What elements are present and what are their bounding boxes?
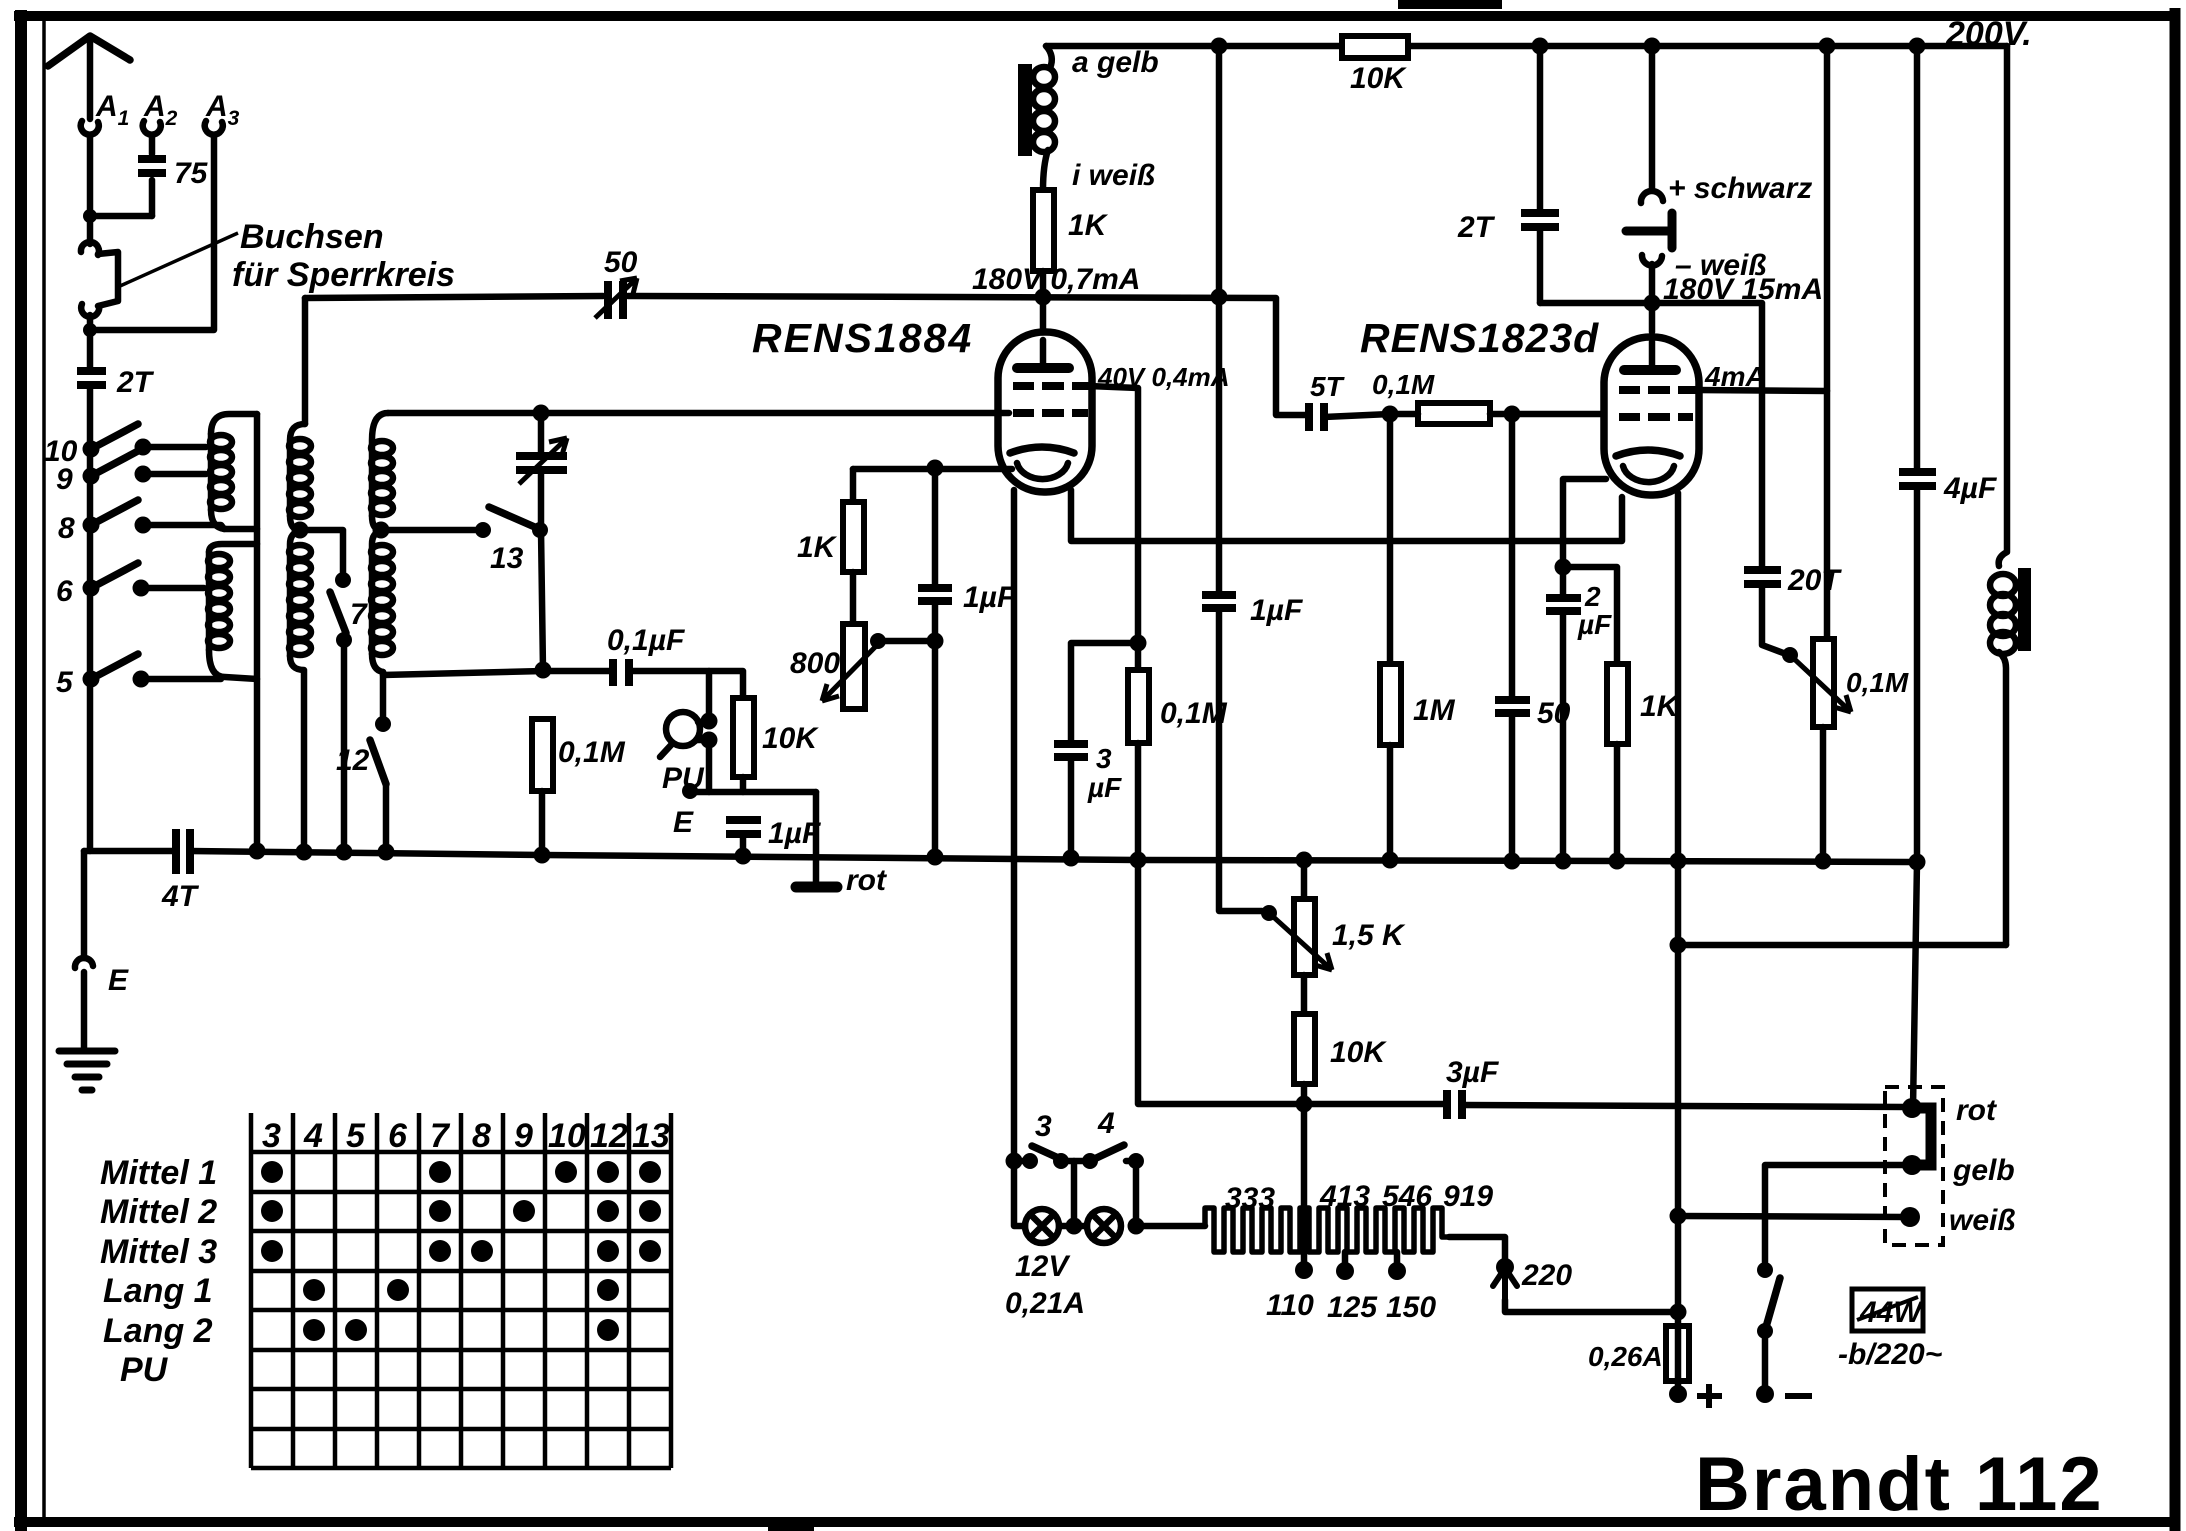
label 3uF screen xyxy=(1087,743,1122,803)
node 0.1uF line xyxy=(535,662,552,679)
node between lamps xyxy=(1066,1218,1083,1235)
capacitor 3uF screen xyxy=(1054,643,1138,857)
svg-text:9: 9 xyxy=(56,463,73,496)
variable capacitor tuning xyxy=(516,413,567,530)
svg-text:a gelb: a gelb xyxy=(1072,46,1159,79)
rheostat 800 xyxy=(822,624,884,709)
resistor 1K cathode tube2 xyxy=(1563,567,1628,859)
wire switch bus xyxy=(87,449,94,851)
svg-text:Buchsen: Buchsen xyxy=(240,218,384,256)
svg-text:4: 4 xyxy=(303,1117,323,1155)
wire screen feed tube2 xyxy=(1696,46,1827,391)
node 20T wiper xyxy=(1782,647,1798,663)
node rail pot xyxy=(1815,853,1832,870)
terminal minus xyxy=(1756,1385,1774,1403)
lamp 12V right xyxy=(1059,1209,1121,1243)
capacitor 1uF decoupling xyxy=(1202,595,1262,911)
link rot-gelb xyxy=(1912,1108,1931,1165)
resistor 0.1M coupling xyxy=(1390,403,1512,424)
wire tap 5 xyxy=(141,676,221,683)
svg-text:1K: 1K xyxy=(1640,690,1681,723)
switch 6 xyxy=(83,563,150,597)
capacitor 4uF xyxy=(1899,38,1936,862)
label plus xyxy=(1697,1384,1722,1408)
capacitor 50 avc xyxy=(1495,414,1530,859)
wire tap to switch 7 xyxy=(300,530,343,573)
svg-text:+ schwarz: + schwarz xyxy=(1668,172,1812,205)
svg-text:Lang 1: Lang 1 xyxy=(103,1272,213,1310)
svg-text:10K: 10K xyxy=(1350,62,1407,95)
wire 180V line right xyxy=(628,296,1305,415)
wire weiss line xyxy=(1678,1216,1910,1217)
svg-text:µF: µF xyxy=(1577,609,1612,640)
svg-text:919: 919 xyxy=(1443,1180,1493,1213)
box 44W xyxy=(1852,1289,1924,1331)
terminal rot xyxy=(1902,1098,1922,1118)
tube RENS1823d xyxy=(1604,303,1699,495)
node heater left xyxy=(1006,1153,1023,1170)
node rail 4uF xyxy=(1909,854,1926,871)
switch 5 xyxy=(83,654,150,688)
node rail 1K tube2 xyxy=(1609,853,1626,870)
node weiss junction xyxy=(1670,1208,1687,1225)
arrow 220 xyxy=(1493,1268,1517,1300)
node bias 200V xyxy=(1211,38,1228,55)
table dots Mittel 3 xyxy=(261,1240,661,1262)
node rail 1M xyxy=(1382,852,1399,869)
svg-text:4T: 4T xyxy=(161,880,200,913)
svg-text:40V 0,4mA: 40V 0,4mA xyxy=(1097,362,1230,392)
wire E line xyxy=(690,789,816,796)
node rail L1 xyxy=(249,843,266,860)
node rail sw7 xyxy=(336,844,353,861)
svg-text:1µF: 1µF xyxy=(1250,594,1303,627)
electrolytic capacitor schwarz/weiss xyxy=(1626,38,1672,304)
svg-text:8: 8 xyxy=(58,512,75,545)
switch 13 xyxy=(475,507,548,538)
svg-text:10K: 10K xyxy=(762,722,819,755)
terminal gelb xyxy=(1902,1155,1922,1175)
node anode 180V xyxy=(1035,289,1052,306)
potentiometer 0.1M tone xyxy=(1790,391,1851,861)
svg-text:1K: 1K xyxy=(1068,209,1109,242)
svg-text:1M: 1M xyxy=(1413,694,1456,727)
svg-text:1µF: 1µF xyxy=(963,581,1016,614)
wire cathode tube2 xyxy=(1563,479,1606,567)
wire anode line tube2 xyxy=(1540,303,1762,567)
terminal E pickup xyxy=(682,783,698,799)
wire 220 to B minus xyxy=(1505,1300,1678,1312)
svg-text:7: 7 xyxy=(350,598,368,631)
node 1uF mid xyxy=(927,633,944,650)
svg-text:Lang 2: Lang 2 xyxy=(103,1312,213,1350)
node cathode 1uF xyxy=(927,460,944,477)
wire A3 down and across xyxy=(90,137,214,330)
wire bias feed x1219 xyxy=(1216,46,1223,595)
svg-text:10K: 10K xyxy=(1330,1036,1387,1069)
connector box dashed xyxy=(1885,1087,1943,1245)
svg-text:RENS1884: RENS1884 xyxy=(752,315,973,361)
resistor 0.1M screen xyxy=(1128,670,1149,860)
terminal A1 xyxy=(81,121,99,135)
resistor 10K pickup xyxy=(733,698,754,792)
svg-text:4µF: 4µF xyxy=(1943,472,1997,505)
svg-text:0,1M: 0,1M xyxy=(1372,369,1435,400)
potentiometer 1.5K xyxy=(1269,860,1332,975)
wire tap 10 xyxy=(143,444,206,451)
svg-text:5T: 5T xyxy=(1310,371,1346,402)
svg-text:20T: 20T xyxy=(1787,564,1842,597)
svg-text:333: 333 xyxy=(1225,1182,1275,1215)
wire to rot ground xyxy=(813,792,820,884)
node rail 3uF xyxy=(1063,850,1080,867)
capacitor 20T xyxy=(1744,570,1786,654)
wire tap 220 xyxy=(1449,1237,1505,1260)
capacitor 4T xyxy=(176,829,190,874)
svg-text:110: 110 xyxy=(1266,1289,1314,1322)
svg-text:13: 13 xyxy=(632,1117,670,1155)
node screen 200V xyxy=(1819,38,1836,55)
svg-text:PU: PU xyxy=(120,1351,169,1389)
wire tap 110 xyxy=(1301,1104,1308,1268)
wire lamp center up xyxy=(1071,1161,1078,1226)
node rail 0.1M screen xyxy=(1130,852,1147,869)
capacitor 1uF bias xyxy=(918,468,952,856)
wire B minus vertical xyxy=(1675,861,1682,1326)
wire heater switch row xyxy=(1014,1158,1136,1165)
svg-text:Mittel 1: Mittel 1 xyxy=(100,1154,217,1192)
terminal A3 xyxy=(205,121,223,135)
wire tap 150 xyxy=(1394,1252,1401,1268)
table dots Lang 2 xyxy=(303,1319,619,1341)
svg-text:44W: 44W xyxy=(1859,1296,1924,1329)
svg-text:E: E xyxy=(108,964,129,997)
switch 10 xyxy=(83,424,152,458)
wire bias line xyxy=(1138,860,1443,1104)
svg-text:E: E xyxy=(673,806,694,839)
tube RENS1884 xyxy=(998,332,1092,492)
wire grid tube2 xyxy=(1512,411,1604,418)
wire tap 125 xyxy=(1342,1252,1349,1268)
svg-text:3: 3 xyxy=(1096,743,1112,774)
wire A2 to A1 junction xyxy=(90,213,152,220)
resistor 1K anode xyxy=(1033,190,1054,332)
resistor heater dropper xyxy=(1205,1208,1449,1252)
node rail 50 xyxy=(1504,853,1521,870)
node rail 0.1M vol xyxy=(534,847,551,864)
capacitor 1uF cathode xyxy=(726,820,761,855)
resistor 1K cathode xyxy=(843,469,864,624)
capacitor 5T xyxy=(1309,403,1390,431)
svg-text:5: 5 xyxy=(346,1117,366,1155)
svg-text:8: 8 xyxy=(472,1117,491,1155)
terminal weiss xyxy=(1900,1207,1920,1227)
label Buchsen fuer Sperrkreis xyxy=(120,218,455,294)
wire 180V line left xyxy=(305,296,603,298)
svg-text:150: 150 xyxy=(1386,1291,1436,1324)
wire ground rail xyxy=(84,851,1917,862)
svg-text:3: 3 xyxy=(1035,1110,1052,1143)
switch 7 xyxy=(330,572,352,648)
capacitor 2T right xyxy=(1521,38,1559,304)
svg-text:7: 7 xyxy=(430,1117,451,1155)
node lamp right xyxy=(1128,1218,1145,1235)
node rail 1.5K xyxy=(1296,852,1313,869)
svg-text:200V.: 200V. xyxy=(1945,15,2032,53)
svg-text:13: 13 xyxy=(490,542,524,575)
svg-text:75: 75 xyxy=(174,157,209,190)
wire earth lead xyxy=(81,851,88,958)
coil L1 upper winding xyxy=(210,414,257,529)
label minus xyxy=(1785,1393,1812,1399)
svg-text:3µF: 3µF xyxy=(1446,1056,1499,1089)
wire L1 spine xyxy=(254,414,261,851)
coil L2 lower winding xyxy=(289,531,311,851)
svg-text:0,1M: 0,1M xyxy=(1846,667,1909,698)
node anode tube2 xyxy=(1644,295,1661,312)
capacitor 75 xyxy=(138,159,166,216)
svg-text:800: 800 xyxy=(790,647,840,680)
switch 4 xyxy=(1082,1145,1144,1169)
svg-text:i weiß: i weiß xyxy=(1072,159,1155,192)
svg-text:12: 12 xyxy=(590,1117,628,1155)
wire lamps to dropper xyxy=(1136,1223,1205,1230)
coil L2 upper winding xyxy=(289,424,311,530)
node rail 2uF xyxy=(1555,853,1572,870)
switch mains xyxy=(1757,1262,1780,1386)
fuse 0.26A xyxy=(1666,1326,1689,1390)
trimmer capacitor 50 xyxy=(595,278,637,319)
capacitor 2uF cathode xyxy=(1546,567,1581,857)
wire tap 8 xyxy=(143,525,224,529)
svg-text:gelb: gelb xyxy=(1952,1154,2015,1187)
svg-text:0,26A: 0,26A xyxy=(1588,1341,1663,1372)
node tap 150 xyxy=(1388,1262,1406,1280)
svg-text:12V: 12V xyxy=(1015,1250,1071,1283)
node bias 180V xyxy=(1211,289,1228,306)
svg-text:weiß: weiß xyxy=(1949,1204,2016,1237)
terminal plus xyxy=(1669,1385,1687,1403)
svg-text:6: 6 xyxy=(56,575,73,608)
wire PU lower to E line xyxy=(706,740,713,792)
svg-text:0,1M: 0,1M xyxy=(558,736,626,769)
wire lamp right down xyxy=(1133,1161,1140,1226)
node tap 220 xyxy=(1496,1258,1514,1276)
switch 12 xyxy=(370,716,391,851)
table dots Mittel 1 xyxy=(261,1161,661,1183)
wire switch7 to rail xyxy=(341,640,348,851)
pickup PU xyxy=(660,712,718,757)
wire tuning line down xyxy=(541,530,543,670)
wire coil3 bottom line xyxy=(383,671,543,675)
wire tap 6 xyxy=(141,585,204,592)
svg-text:3: 3 xyxy=(262,1117,281,1155)
svg-text:1K: 1K xyxy=(797,531,838,564)
node 800 wiper xyxy=(870,633,886,649)
node cathode tube2 xyxy=(1555,559,1572,576)
coil anode choke xyxy=(1018,46,1055,190)
table dots Lang 1 xyxy=(303,1279,619,1301)
wire heater tube1 left xyxy=(1011,490,1018,1161)
wire cathode line xyxy=(853,466,1012,473)
svg-text:125: 125 xyxy=(1327,1291,1378,1324)
wire wiper to 1uF xyxy=(878,638,935,645)
wire tap 9 xyxy=(143,471,206,478)
node 1M top xyxy=(1382,406,1399,423)
coil L1 lower winding xyxy=(208,544,257,679)
svg-text:Brandt 112: Brandt 112 xyxy=(1695,1442,2104,1527)
ground rot xyxy=(796,882,837,893)
wire rot feed xyxy=(1913,862,1917,1108)
svg-text:Mittel 3: Mittel 3 xyxy=(100,1233,217,1271)
resistor 10K rail xyxy=(1342,36,1408,58)
node screen 3uF xyxy=(1130,635,1147,652)
coil L3 upper winding xyxy=(371,413,393,530)
antenna xyxy=(48,36,130,119)
svg-text:µF: µF xyxy=(1087,772,1122,803)
node rail 1uF bias xyxy=(927,849,944,866)
speaker transformer xyxy=(1990,46,2031,945)
svg-text:5: 5 xyxy=(56,666,74,699)
wire to 2T xyxy=(87,330,94,369)
wire heater tube2 right xyxy=(1675,493,1682,859)
ground symbol xyxy=(59,972,115,1090)
node rail L2 xyxy=(296,844,313,861)
node L2 tap xyxy=(292,522,309,539)
terminal A2 xyxy=(143,121,161,135)
svg-text:-b/220~: -b/220~ xyxy=(1838,1338,1942,1371)
table dots Mittel 2 xyxy=(261,1200,661,1222)
wire 200V rail xyxy=(1046,43,2007,50)
capacitor 2T xyxy=(77,371,106,449)
svg-text:2T: 2T xyxy=(1457,211,1496,244)
svg-text:9: 9 xyxy=(514,1117,533,1155)
wire L3 bottom to switch 12 xyxy=(380,672,387,717)
sockets fuer Sperrkreis xyxy=(81,242,118,330)
svg-text:rot: rot xyxy=(1956,1094,1998,1127)
wire gelb to switch xyxy=(1765,1165,1912,1262)
node L3 tap xyxy=(373,522,390,539)
svg-text:0,1µF: 0,1µF xyxy=(607,624,685,657)
node rail sw12 xyxy=(378,844,395,861)
capacitor 3uF output xyxy=(1447,1090,1912,1119)
svg-text:413: 413 xyxy=(1319,1180,1370,1213)
svg-text:für Sperrkreis: für Sperrkreis xyxy=(232,256,455,294)
node rail 1uF xyxy=(735,848,752,865)
resistor 10K bias xyxy=(1294,975,1315,1104)
svg-text:2: 2 xyxy=(1584,581,1601,612)
svg-text:0,21A: 0,21A xyxy=(1005,1287,1085,1320)
switch 9 xyxy=(83,451,152,485)
wire to PU and 10K xyxy=(709,671,743,716)
resistor 0.1M volume xyxy=(532,719,553,856)
svg-text:Mittel 2: Mittel 2 xyxy=(100,1193,217,1231)
lamp 12V left xyxy=(1014,1161,1059,1243)
svg-text:50: 50 xyxy=(604,246,638,279)
wire A2 down xyxy=(149,136,156,154)
label 2uF xyxy=(1577,581,1612,640)
wire 180V feed down to L2 xyxy=(302,298,309,424)
wire tap to switch 13 xyxy=(381,527,483,534)
wire A1 down xyxy=(87,136,94,244)
svg-text:220: 220 xyxy=(1521,1259,1572,1292)
svg-text:10: 10 xyxy=(548,1117,586,1155)
svg-text:546: 546 xyxy=(1382,1180,1432,1213)
node tuning cap top xyxy=(533,405,550,422)
wire grid bus y413 xyxy=(388,410,1009,417)
switch 8 xyxy=(83,500,152,534)
node 220 junction xyxy=(1670,1304,1687,1321)
node bias junction xyxy=(1296,1096,1313,1113)
node rail B minus xyxy=(1670,853,1687,870)
switch table grid xyxy=(251,1113,671,1468)
node A3 join xyxy=(83,323,97,337)
wire screen tube1 xyxy=(1089,386,1138,670)
svg-text:4: 4 xyxy=(1097,1107,1115,1140)
wire speaker return xyxy=(1678,942,2006,949)
svg-text:rot: rot xyxy=(846,864,888,897)
svg-text:12: 12 xyxy=(336,744,370,777)
node speaker return xyxy=(1670,937,1687,954)
resistor 1M grid leak xyxy=(1380,414,1401,859)
node tap 110 xyxy=(1295,1261,1313,1279)
svg-text:1,5 K: 1,5 K xyxy=(1332,919,1406,952)
capacitor 0.1uF xyxy=(543,659,709,686)
coil L3 lower winding xyxy=(371,531,393,672)
svg-text:RENS1823d: RENS1823d xyxy=(1360,315,1599,361)
svg-text:2T: 2T xyxy=(116,366,155,399)
wire heater tube1 right xyxy=(1071,490,1622,541)
switch 3 xyxy=(1022,1146,1069,1169)
terminal E earth xyxy=(75,958,93,968)
svg-text:6: 6 xyxy=(388,1117,408,1155)
node 1.5K wiper xyxy=(1261,905,1277,921)
node tap 125 xyxy=(1336,1262,1354,1280)
node A1/A2 xyxy=(83,209,97,223)
node 50pf top xyxy=(1504,406,1521,423)
